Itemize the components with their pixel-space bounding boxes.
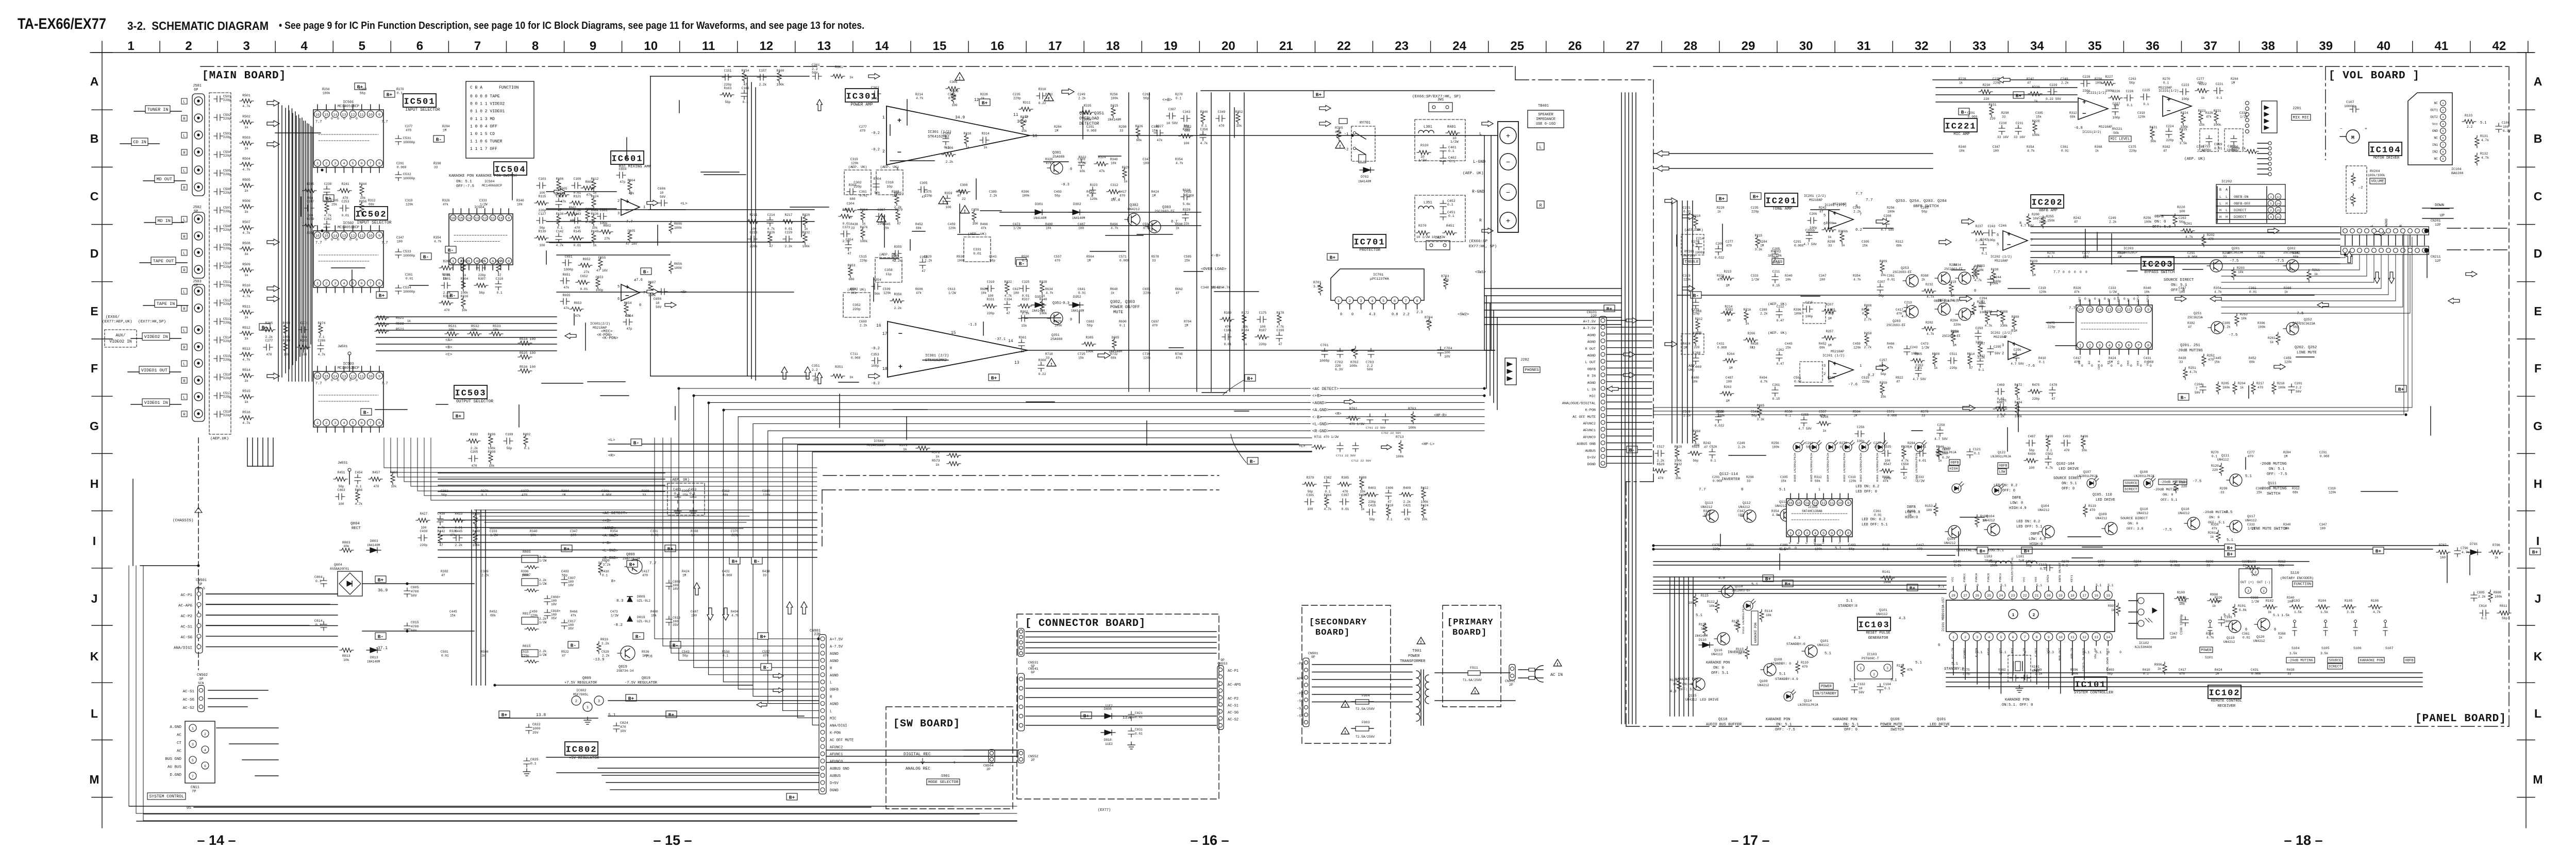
svg-text:10k: 10k: [2238, 270, 2244, 274]
svg-text:C535: C535: [1884, 445, 1892, 449]
svg-text:C277: C277: [2098, 560, 2105, 564]
svg-text:DOWN: DOWN: [2435, 203, 2444, 208]
svg-text:C361: C361: [859, 190, 867, 194]
svg-text:220p: 220p: [2032, 397, 2040, 401]
svg-text:R261: R261: [2184, 222, 2192, 226]
IC601 output runs: [546, 209, 814, 210]
svg-text:ANA/DIGI: ANA/DIGI: [830, 724, 847, 728]
svg-text:A+7.5V: A+7.5V: [1583, 320, 1596, 324]
svg-text:R564: R564: [1853, 410, 1861, 414]
svg-text:R606: R606: [915, 287, 923, 291]
svg-text:B+: B+: [1330, 254, 1336, 260]
svg-text:2: 2: [325, 282, 327, 286]
svg-text:56p: 56p: [507, 447, 512, 450]
svg-text:R438: R438: [2287, 668, 2295, 672]
svg-text:<L-GND>: <L-GND>: [1312, 423, 1329, 427]
svg-text:12: 12: [2277, 195, 2280, 199]
svg-text:100k: 100k: [674, 266, 682, 270]
svg-text:INH: INH: [1821, 539, 1825, 544]
svg-text:STANDBY:4.9: STANDBY:4.9: [1775, 677, 1798, 682]
main board top border: [200, 66, 1515, 67]
svg-text:6: 6: [617, 297, 620, 301]
svg-text:OUTPUT SELECTOR: OUTPUT SELECTOR: [456, 399, 493, 404]
svg-text:R301: R301: [835, 65, 843, 69]
svg-text:R480: R480: [650, 610, 658, 614]
svg-text:C291: C291: [601, 489, 609, 493]
C822 C824 C825: [526, 724, 532, 734]
svg-text:C223: C223: [750, 231, 758, 234]
svg-text:28: 28: [1951, 594, 1955, 598]
svg-text:12P: 12P: [2435, 223, 2441, 227]
Q103 Q104 transistors: [1948, 525, 1961, 538]
svg-text:1M: 1M: [443, 129, 447, 132]
svg-text:C: C: [90, 190, 99, 203]
svg-text:INVERTER: INVERTER: [1728, 651, 1745, 655]
svg-text:IC501: IC501: [404, 97, 436, 107]
svg-text:0.1: 0.1: [2163, 81, 2169, 85]
svg-text:470: 470: [2208, 358, 2214, 362]
svg-text:1k: 1k: [1828, 235, 1832, 239]
svg-text:5: 5: [192, 759, 194, 762]
svg-text:0.01: 0.01: [1887, 278, 1895, 282]
svg-text:AC-APG: AC-APG: [178, 604, 193, 608]
svg-text:ON: 0: ON: 0: [1713, 666, 1724, 670]
svg-text:68k: 68k: [1815, 480, 1820, 483]
svg-text:LED OFF: 5.1: LED OFF: 5.1: [1862, 523, 1887, 527]
svg-text:100k: 100k: [2278, 386, 2286, 389]
svg-text:B+: B+: [760, 634, 766, 639]
svg-text:R499: R499: [2028, 452, 2036, 456]
relay drive resistor R705: [1339, 118, 1347, 124]
svg-text:6: 6: [361, 162, 363, 166]
svg-text:R298: R298: [1119, 125, 1127, 129]
svg-text:MIC-IN: MIC-IN: [1951, 648, 1954, 658]
svg-text:KEYO: KEYO: [1986, 648, 1990, 655]
svg-text:56p: 56p: [339, 485, 344, 488]
Q234 Q284 transistors left of IC202: [1959, 272, 1971, 284]
svg-text:47k: 47k: [1426, 320, 1432, 324]
svg-text:R124: R124: [591, 195, 599, 198]
svg-text:R256: R256: [359, 200, 367, 203]
svg-text:G: G: [2533, 419, 2542, 433]
svg-text:C534: C534: [403, 286, 411, 290]
svg-text:B-: B-: [363, 410, 369, 415]
svg-text:R808: R808: [2494, 591, 2501, 594]
svg-text:<-B>: <-B>: [602, 541, 612, 546]
IC104 label box: [2369, 142, 2402, 156]
svg-text:C333: C333: [2247, 523, 2255, 526]
svg-text:H: H: [2219, 209, 2221, 213]
svg-text:C533: C533: [403, 250, 411, 253]
svg-text:0.15: 0.15: [1772, 261, 1780, 265]
svg-text:1k: 1k: [935, 455, 940, 458]
svg-text:11: 11: [491, 217, 495, 221]
svg-text:BOARD]: BOARD]: [1315, 628, 1350, 638]
svg-text:1: 1: [1860, 667, 1862, 670]
svg-text:24: 24: [1999, 594, 2003, 598]
svg-text:6: 6: [2442, 137, 2444, 140]
svg-text:Q804: Q804: [334, 563, 342, 567]
svg-text:MC14052BCP: MC14052BCP: [338, 366, 359, 370]
right bus risers near speaker area: [1486, 296, 1487, 388]
svg-text:R100: R100: [2177, 591, 2185, 594]
svg-text:CN211: CN211: [2431, 255, 2441, 259]
crystal X101 4MHz: [2008, 655, 2031, 682]
svg-text:470: 470: [2074, 361, 2080, 364]
svg-text:C347: C347: [2319, 523, 2327, 526]
svg-text:B-: B-: [571, 642, 576, 648]
svg-text:R385: R385: [1086, 336, 1094, 339]
svg-text:R227: R227: [2105, 75, 2113, 79]
regulator resistor bank R805 R807 R815 R817: [522, 555, 538, 563]
svg-text:7.7: 7.7: [2069, 307, 2076, 311]
svg-text:R354: R354: [2214, 286, 2221, 290]
svg-text:B+: B+: [2532, 549, 2538, 555]
svg-text:47k: 47k: [563, 307, 569, 310]
svg-text:R494: R494: [1110, 223, 1118, 226]
svg-text:C514: C514: [223, 336, 231, 339]
svg-text:+: +: [625, 283, 629, 291]
svg-text:R326: R326: [1045, 158, 1053, 161]
svg-text:C333: C333: [2239, 111, 2247, 115]
svg-text:R506: R506: [242, 199, 250, 203]
svg-text:R472: R472: [2015, 383, 2022, 387]
svg-text:Q819: Q819: [642, 676, 650, 681]
svg-text:0.01: 0.01: [342, 214, 349, 217]
svg-text:L: L: [183, 252, 186, 256]
svg-text:2.7k: 2.7k: [1864, 318, 1872, 321]
svg-text:−: −: [897, 149, 901, 157]
svg-text:2.2k: 2.2k: [2109, 220, 2117, 224]
svg-text:1k: 1k: [1934, 366, 1938, 370]
svg-text:C312: C312: [1111, 183, 1118, 187]
svg-text:1k: 1k: [593, 191, 597, 195]
svg-text:(AEP. UK): (AEP. UK): [1768, 302, 1787, 307]
svg-text:R418: R418: [1386, 504, 1394, 507]
CN201 pin wires: [2345, 235, 2346, 245]
svg-text:R396: R396: [2070, 668, 2078, 672]
svg-text:4.7k: 4.7k: [242, 358, 250, 362]
svg-text:μPC1237HA: μPC1237HA: [1370, 277, 1390, 281]
svg-text:C502: C502: [2046, 452, 2053, 456]
svg-text:R115: R115: [539, 195, 546, 198]
svg-text:470: 470: [642, 574, 648, 577]
svg-text:B: B: [2534, 132, 2542, 145]
svg-text:C107: C107: [2346, 100, 2354, 104]
svg-text:C493: C493: [2063, 435, 2071, 438]
svg-text:100: 100: [1993, 149, 1999, 153]
svg-text:C454: C454: [355, 471, 363, 474]
B+ box CN101: [1604, 305, 1615, 312]
svg-text:3.3k: 3.3k: [2347, 610, 2354, 614]
svg-text:B-: B-: [633, 440, 639, 446]
AC plug: [1535, 666, 1543, 682]
svg-text:7: 7: [1405, 299, 1407, 303]
svg-text:R550: R550: [1022, 255, 1029, 259]
svg-text:T1.6A/250V: T1.6A/250V: [1463, 678, 1482, 682]
svg-text:1k: 1k: [2157, 667, 2162, 671]
svg-text:R303: R303: [849, 183, 857, 187]
svg-text:220p: 220p: [223, 117, 231, 121]
svg-text:R312: R312: [1896, 240, 1903, 244]
svg-text:R: R: [183, 380, 186, 384]
svg-text:Q121: Q121: [1943, 447, 1951, 450]
svg-text:RECT: RECT: [352, 526, 361, 531]
svg-text:10V: 10V: [1444, 355, 1450, 359]
svg-text:10k: 10k: [1422, 518, 1428, 521]
svg-text:(EX77:AEP,UK): (EX77:AEP,UK): [102, 320, 132, 324]
svg-text:UN4212: UN4212: [2137, 512, 2149, 515]
svg-text:1M: 1M: [2284, 455, 2288, 458]
IC104 chip: [2408, 93, 2452, 165]
svg-text:Q122: Q122: [1998, 451, 2005, 454]
svg-text:OUT (+): OUT (+): [2240, 581, 2254, 584]
svg-text:C175: C175: [1259, 311, 1267, 315]
svg-text:470: 470: [1119, 194, 1125, 198]
svg-text:0.068: 0.068: [851, 356, 861, 360]
svg-text:R702: R702: [1350, 361, 1359, 364]
svg-text:0.01: 0.01: [860, 194, 867, 198]
svg-text:2: 2: [1824, 372, 1826, 377]
regulator caps C807 C817 C808 C809: [561, 576, 567, 586]
svg-text:R340: R340: [2144, 286, 2151, 290]
svg-text:L: L: [2219, 195, 2221, 199]
svg-text:R368: R368: [892, 190, 899, 194]
svg-text:L103: L103: [1984, 555, 1992, 558]
svg-text:100: 100: [1143, 162, 1149, 165]
svg-text:36.9: 36.9: [378, 588, 388, 593]
svg-text:47: 47: [2051, 397, 2055, 401]
svg-text:4.7k: 4.7k: [242, 168, 250, 172]
svg-text:C389: C389: [481, 570, 489, 573]
svg-text:4.9: 4.9: [1670, 690, 1677, 694]
svg-text:1: 1: [882, 115, 885, 120]
svg-text:C403: C403: [1828, 308, 1835, 312]
svg-text:68k: 68k: [2279, 564, 2284, 568]
svg-text:R355: R355: [894, 245, 902, 249]
svg-text:2: 2: [1964, 636, 1966, 639]
svg-text:15k: 15k: [1184, 259, 1190, 263]
svg-text:R284: R284: [442, 125, 450, 128]
svg-text:KARAOKE PON: KARAOKE PON: [1833, 718, 1857, 722]
svg-text:C231: C231: [2016, 122, 2023, 125]
secondary board wires: [1312, 664, 1412, 665]
svg-text:<-B>: <-B>: [1312, 416, 1322, 420]
svg-text:UZL-9L2: UZL-9L2: [637, 599, 650, 603]
svg-text:7.7: 7.7: [1699, 488, 1706, 492]
svg-text:+: +: [2082, 98, 2086, 106]
svg-text:−: −: [1506, 159, 1510, 167]
svg-text:120k: 120k: [763, 494, 771, 497]
svg-text:RV204: RV204: [2370, 169, 2380, 173]
svg-text:6: 6: [204, 764, 206, 768]
svg-text:CD IN: CD IN: [133, 140, 146, 145]
svg-text:0.01: 0.01: [1915, 366, 1922, 370]
svg-text:R396: R396: [1022, 190, 1029, 194]
svg-text:1/2W: 1/2W: [1013, 227, 1021, 230]
svg-text:<R>: <R>: [680, 291, 688, 295]
svg-text:47k: 47k: [1887, 346, 1893, 350]
svg-text:3: 3: [1806, 532, 1808, 536]
svg-text:0.47: 0.47: [1777, 362, 1784, 366]
svg-text:Q252: Q252: [2304, 318, 2312, 321]
svg-text:C406: C406: [1386, 486, 1394, 490]
svg-text:R502: R502: [242, 115, 250, 118]
svg-text:470: 470: [2098, 564, 2104, 568]
svg-text:C205: C205: [471, 450, 478, 454]
svg-text:C517: C517: [223, 392, 231, 395]
connector CN531 5P: [1018, 628, 1024, 657]
svg-text:OFF: 5.1: OFF: 5.1: [2161, 498, 2178, 502]
svg-text:1: 1: [1860, 364, 1862, 368]
svg-text:CN901: CN901: [1308, 652, 1318, 655]
svg-text:AGND: AGND: [830, 652, 839, 656]
svg-text:13: 13: [2107, 308, 2111, 312]
svg-text:R354: R354: [1853, 274, 1861, 278]
svg-text:CN552: CN552: [1028, 755, 1039, 758]
svg-text:R340: R340: [530, 530, 538, 533]
connector CN504 2P: [989, 750, 995, 763]
secondary board outline: [1302, 605, 1391, 743]
svg-text:-7.5: -7.5: [2230, 259, 2238, 263]
svg-text:470: 470: [1404, 518, 1410, 521]
svg-text:C142: C142: [556, 230, 564, 233]
vol zone arrows: [2347, 251, 2352, 263]
svg-text:R213: R213: [1724, 270, 1732, 274]
svg-text:0.01: 0.01: [441, 654, 449, 658]
svg-text:D315: D315: [1111, 104, 1118, 108]
svg-text:56p: 56p: [725, 100, 731, 104]
svg-text:C305: C305: [2242, 560, 2250, 564]
svg-text:R239: R239: [2030, 260, 2038, 263]
svg-text:+5V REGULATOR: +5V REGULATOR: [569, 756, 599, 760]
svg-text:R340: R340: [2283, 523, 2291, 526]
svg-text:(AEP. UK): (AEP. UK): [848, 165, 867, 169]
svg-text:0: 0: [343, 379, 345, 382]
svg-text:<+B>: <+B>: [602, 519, 612, 523]
svg-text:14: 14: [2098, 308, 2102, 312]
svg-text:L: L: [183, 134, 186, 139]
svg-text:BA6208: BA6208: [2451, 172, 2464, 175]
svg-text:470: 470: [2179, 672, 2185, 676]
svg-text:1/2W: 1/2W: [2251, 600, 2259, 604]
svg-text:10k/10k: 10k/10k: [1681, 254, 1695, 258]
svg-text:220p: 220p: [2166, 139, 2174, 142]
svg-text:470: 470: [1658, 477, 1664, 480]
svg-text:220p: 220p: [223, 265, 231, 269]
svg-text:10 50V: 10 50V: [1166, 122, 1178, 125]
svg-text:(CHASSIS): (CHASSIS): [173, 519, 194, 523]
svg-text:0.15: 0.15: [1772, 284, 1780, 287]
svg-text:-0.2: -0.2: [871, 382, 880, 386]
Q117 line mute switch: [2230, 520, 2242, 533]
svg-text:MS218AP: MS218AP: [1995, 259, 2008, 263]
svg-text:L: L: [830, 681, 832, 685]
svg-text:Q251: Q251: [2194, 312, 2202, 315]
svg-text:1k: 1k: [849, 376, 854, 379]
svg-text:2SA988: 2SA988: [1050, 337, 1063, 341]
svg-text:33: 33: [434, 166, 438, 169]
svg-text:R396: R396: [2257, 321, 2265, 325]
svg-text:E: E: [2534, 304, 2541, 318]
svg-text:100k: 100k: [1421, 500, 1429, 504]
svg-text:R223: R223: [2198, 109, 2206, 113]
svg-text:R312: R312: [722, 489, 730, 493]
svg-text:VIDEO2 IN: VIDEO2 IN: [109, 339, 131, 344]
svg-text:4.7k: 4.7k: [242, 421, 250, 425]
svg-text:1/2W: 1/2W: [539, 621, 547, 624]
svg-text:R235: R235: [307, 182, 314, 186]
svg-text:!: !: [1556, 662, 1559, 667]
svg-text:0.1: 0.1: [2047, 449, 2052, 452]
svg-text:B+: B+: [456, 413, 462, 419]
svg-text:1k: 1k: [244, 337, 248, 341]
svg-text:10k: 10k: [1704, 514, 1710, 517]
svg-text:Vcc: Vcc: [2432, 123, 2438, 126]
svg-text:0.068: 0.068: [723, 574, 732, 577]
svg-text:1k: 1k: [935, 463, 940, 467]
svg-text:1k: 1k: [1959, 81, 1963, 85]
svg-text:R521: R521: [396, 316, 404, 320]
svg-text:R284: R284: [1950, 319, 1958, 322]
svg-text:68k: 68k: [369, 203, 374, 207]
svg-text:R112: R112: [591, 177, 599, 181]
svg-text:22: 22: [2023, 594, 2027, 598]
svg-text:C822: C822: [532, 723, 541, 726]
mic amp op-amp 1: [2078, 98, 2108, 120]
svg-text:100: 100: [1738, 514, 1744, 517]
svg-text:R438: R438: [1751, 342, 1759, 346]
svg-text:100k: 100k: [323, 92, 330, 95]
svg-text:C263: C263: [1805, 441, 1813, 445]
svg-text:GND: GND: [2432, 129, 2438, 133]
svg-text:220p: 220p: [223, 247, 231, 250]
svg-text:R564: R564: [1086, 255, 1094, 259]
svg-text:56p: 56p: [360, 92, 365, 95]
svg-text:0.22: 0.22: [1039, 372, 1046, 376]
led Q107 Q108 row: [2087, 479, 2096, 488]
svg-text:R: R: [183, 346, 186, 350]
svg-text:4.7k: 4.7k: [242, 295, 250, 298]
svg-text:−: −: [625, 207, 629, 214]
svg-text:R226: R226: [767, 231, 775, 234]
svg-text:0: 0: [2123, 297, 2126, 301]
svg-text:C762 22 50V: C762 22 50V: [1381, 431, 1401, 435]
svg-text:R651: R651: [563, 273, 571, 277]
svg-text:R572: R572: [932, 451, 940, 454]
svg-text:2: 2: [1873, 673, 1875, 676]
svg-text:C391: C391: [1307, 494, 1314, 497]
svg-text:MIC AMP: MIC AMP: [1953, 132, 1970, 137]
svg-text:R803: R803: [342, 541, 350, 545]
IC102 label box: [2208, 685, 2241, 699]
svg-text:R298: R298: [642, 489, 649, 493]
svg-text:R424: R424: [2215, 668, 2222, 672]
svg-text:1: 1: [1337, 299, 1340, 303]
svg-text:!: !: [942, 200, 944, 205]
svg-text:0: 0: [356, 379, 358, 382]
svg-text:R320: R320: [1420, 144, 1429, 147]
svg-text:R178: R178: [1277, 311, 1284, 315]
svg-text:1/2W: 1/2W: [490, 534, 498, 537]
svg-text:KEY1: KEY1: [2070, 575, 2073, 582]
svg-text:56p: 56p: [1881, 372, 1886, 376]
svg-text:Q108: Q108: [2140, 470, 2148, 474]
svg-text:4: 4: [2109, 344, 2111, 348]
svg-text:C305: C305: [1151, 125, 1159, 129]
svg-text:R228: R228: [1717, 206, 1725, 210]
svg-text:R703: R703: [1441, 275, 1449, 278]
